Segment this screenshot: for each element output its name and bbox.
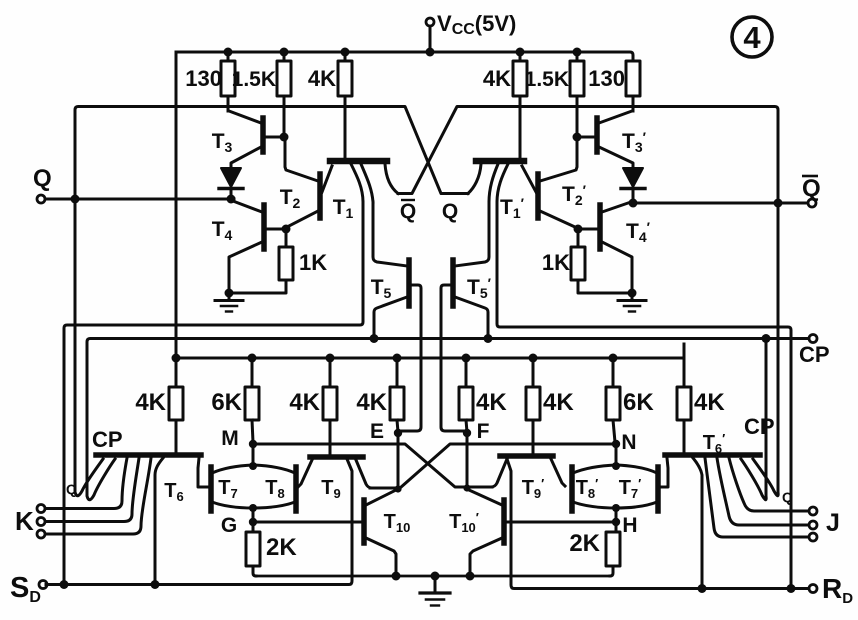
svg-text:Q: Q xyxy=(400,200,416,223)
Sd terminal xyxy=(39,581,47,589)
transistor T5 xyxy=(370,260,422,431)
transistor T8 xyxy=(249,462,296,512)
svg-text:2K: 2K xyxy=(569,530,600,557)
resistor 1.5K (right) xyxy=(570,48,584,142)
transistor T4 xyxy=(229,201,291,293)
transistor T1 (multi-emitter) xyxy=(322,161,398,202)
resistor 6K (lower right) xyxy=(606,358,620,442)
wire cross-coupling net B (Qbar side rail to T1 emitter) xyxy=(398,107,783,489)
svg-text:4K: 4K xyxy=(694,389,725,416)
transistor T7' xyxy=(616,465,658,511)
transistor T6 (multi-emitter) xyxy=(46,455,208,584)
svg-text:130: 130 xyxy=(588,66,625,91)
ground (left, T4 emitter) xyxy=(215,289,243,312)
resistor 1K (left) xyxy=(229,229,293,293)
svg-text:4K: 4K xyxy=(135,389,166,416)
svg-text:CP: CP xyxy=(799,342,830,367)
diode D1 (left) xyxy=(219,168,243,199)
wire top Vcc rail xyxy=(176,52,633,61)
transistor T10' xyxy=(463,484,504,574)
svg-text:M: M xyxy=(221,427,239,450)
ground (bottom center) xyxy=(420,576,450,606)
wire Vcc feed left (top rail to lower rail) xyxy=(175,52,178,358)
svg-text:T9′: T9′ xyxy=(522,476,545,501)
transistor T9 (multi-emitter) xyxy=(298,457,372,488)
resistor 4K (lower far-left) xyxy=(169,358,183,452)
wire Sd bottom line xyxy=(46,459,352,589)
wire M cross line (M to T9'/F side) xyxy=(253,444,492,487)
svg-text:6K: 6K xyxy=(211,389,242,416)
resistor 1.5K (left) xyxy=(277,48,291,142)
Vcc terminal xyxy=(426,18,435,57)
svg-text:T8′: T8′ xyxy=(576,476,599,501)
svg-text:N: N xyxy=(621,431,636,454)
resistor 4K (lower left-mid) xyxy=(323,358,337,454)
resistor 4K (lower far-right) xyxy=(677,358,691,452)
diode D2 (right) xyxy=(621,168,645,203)
transistor T4' xyxy=(574,202,633,293)
resistor 6K (lower left) xyxy=(245,358,259,442)
wire T1 emitter to T5 collector xyxy=(373,202,407,266)
wire Q output line xyxy=(45,195,236,204)
svg-text:4K: 4K xyxy=(483,66,511,91)
resistor 4K (top left) xyxy=(338,48,352,159)
wire ground line (bottom center) xyxy=(256,572,610,581)
svg-text:CP: CP xyxy=(744,414,775,439)
svg-text:4K: 4K xyxy=(356,389,387,416)
CP terminal xyxy=(809,335,817,343)
wire Rd upper run (Rd up to T1' emitter) xyxy=(497,202,791,586)
svg-text:1K: 1K xyxy=(542,250,570,275)
svg-text:Q: Q xyxy=(66,481,77,497)
label Qbar feedback (on net B) xyxy=(400,200,416,223)
transistor T7 xyxy=(211,465,253,511)
Q output terminal xyxy=(37,195,45,203)
svg-text:VCC(5V): VCC(5V) xyxy=(437,11,516,38)
Rd terminal xyxy=(809,585,817,593)
wire Sd upper run (Sd up to T1 emitter) xyxy=(64,202,363,582)
wire cross-coupling net A (Q side rail to T1' emitter) xyxy=(71,107,469,488)
svg-text:2K: 2K xyxy=(266,534,297,561)
J input terminals xyxy=(809,507,817,541)
svg-text:4: 4 xyxy=(743,20,761,55)
svg-text:6K: 6K xyxy=(623,389,654,416)
svg-text:1.5K: 1.5K xyxy=(525,68,569,91)
svg-text:K: K xyxy=(15,506,34,536)
wire lower Vcc rail xyxy=(172,344,685,363)
transistor T9' (multi-emitter) xyxy=(491,456,565,487)
svg-text:1K: 1K xyxy=(299,250,327,275)
svg-text:J: J xyxy=(826,509,840,537)
svg-text:4K: 4K xyxy=(543,389,574,416)
resistor 1K (right) xyxy=(571,229,632,293)
resistor 4K (top right) xyxy=(513,48,527,159)
svg-text:T7′: T7′ xyxy=(619,476,642,501)
resistor 130 (right) xyxy=(626,61,640,111)
svg-text:T6′: T6′ xyxy=(703,431,726,456)
svg-text:1.5K: 1.5K xyxy=(232,68,276,91)
K input terminals xyxy=(37,505,45,539)
ground (right, T4' emitter) xyxy=(618,289,646,312)
svg-text:Q: Q xyxy=(802,175,821,202)
wire CP line xyxy=(87,334,809,492)
transistor T3' xyxy=(577,111,633,168)
resistor 4K (lower right-center) xyxy=(459,358,473,432)
svg-text:E: E xyxy=(370,420,384,443)
svg-text:CP: CP xyxy=(92,427,123,452)
transistor T3 xyxy=(228,111,284,168)
resistor 4K (lower left-center) xyxy=(390,358,404,432)
svg-text:G: G xyxy=(221,514,237,537)
transistor T8' xyxy=(572,462,620,512)
wire Rd bottom line xyxy=(507,459,809,593)
Qbar output terminal xyxy=(808,199,816,207)
svg-text:Q: Q xyxy=(782,489,793,505)
resistor 2K (left) xyxy=(246,532,260,576)
svg-text:4K: 4K xyxy=(289,389,320,416)
transistor T10 xyxy=(364,485,402,574)
resistor 130 (left) xyxy=(221,48,235,112)
node N xyxy=(612,440,620,466)
transistor T2 xyxy=(285,137,320,227)
transistor T5' xyxy=(441,260,493,431)
svg-text:H: H xyxy=(622,514,637,537)
circled figure number 4 xyxy=(732,17,772,57)
transistor T1' (multi-emitter) xyxy=(468,161,536,202)
label Qbar terminal xyxy=(802,175,821,202)
svg-text:130: 130 xyxy=(185,66,222,91)
resistor 4K (lower right-mid) xyxy=(526,358,540,453)
node E xyxy=(394,429,402,489)
node G xyxy=(249,508,362,532)
svg-text:F: F xyxy=(477,420,490,443)
svg-text:4K: 4K xyxy=(476,389,507,416)
svg-text:4K: 4K xyxy=(308,66,336,91)
transistor T6' (multi-emitter) xyxy=(659,455,809,587)
wire N cross line (N to T9/E side) xyxy=(370,444,616,488)
svg-text:Q: Q xyxy=(33,165,52,192)
svg-text:Q: Q xyxy=(442,200,458,223)
resistor 2K (right) xyxy=(606,532,620,576)
node M xyxy=(249,440,257,466)
transistor T2' xyxy=(538,137,577,227)
node H xyxy=(506,508,620,532)
wire Qbar output line xyxy=(629,199,809,208)
node F xyxy=(463,429,471,489)
wire T1' emitter to T5' collector xyxy=(455,202,489,266)
